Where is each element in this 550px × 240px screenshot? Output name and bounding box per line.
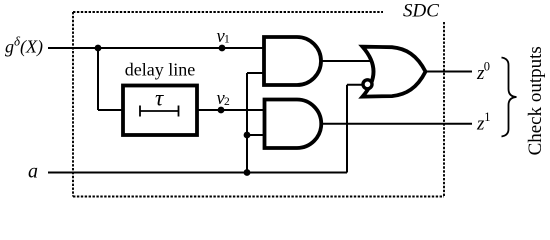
svg-text:a: a (28, 161, 38, 183)
svg-text:SDC: SDC (403, 1, 439, 22)
node v2 dot (218, 107, 225, 114)
OR gate with inverted input (z0) (363, 47, 426, 97)
wire into bubble (347, 84, 364, 86)
tau symbol right tick (178, 106, 180, 117)
SDC dashed box right edge (443, 22, 445, 197)
wire a input (48, 172, 347, 174)
wire g input to AND1 top input (node v1) (48, 47, 266, 49)
curly brace for check outputs (502, 58, 517, 137)
wire into delay line (98, 109, 125, 111)
AND gate top (inputs v1, a) (264, 37, 321, 85)
svg-text:Check outputs: Check outputs (525, 46, 546, 155)
tau symbol left tick (139, 106, 141, 117)
wire stub to AND2 lower input (247, 134, 266, 136)
wire AND2 output to z1 (319, 123, 472, 125)
junction a line (244, 169, 251, 176)
svg-text:gδ(X): gδ(X) (5, 34, 43, 58)
svg-text:2: 2 (224, 96, 230, 108)
junction g/delay branch (95, 45, 102, 52)
wire OR output to z0 (424, 71, 472, 73)
SDC dashed box left edge (72, 12, 74, 197)
wire stub to AND1 lower input (247, 72, 266, 74)
tau delay symbol line (140, 110, 179, 112)
svg-text:0: 0 (484, 59, 490, 73)
svg-text:1: 1 (484, 110, 490, 124)
AND gate bottom (inputs v2, a) (265, 100, 322, 149)
SDC dashed box bottom edge (73, 196, 444, 198)
delay line box (123, 86, 197, 136)
svg-text:1: 1 (224, 34, 230, 46)
SDC dashed box top edge (73, 11, 383, 13)
wire branch down from g to delay line (97, 48, 99, 110)
inverter bubble on OR lower input (363, 80, 372, 89)
wire AND1 output to OR top input (319, 60, 372, 62)
wire delay line out to AND2 top input (node v2) (195, 109, 266, 111)
svg-text:delay line: delay line (125, 60, 195, 80)
svg-text:τ: τ (155, 85, 164, 110)
junction a to AND2 input (244, 132, 251, 139)
wire a vertical branch to AND inputs (246, 73, 248, 173)
node v1 dot (219, 45, 226, 52)
wire a up to NOR bubble input (346, 85, 348, 173)
